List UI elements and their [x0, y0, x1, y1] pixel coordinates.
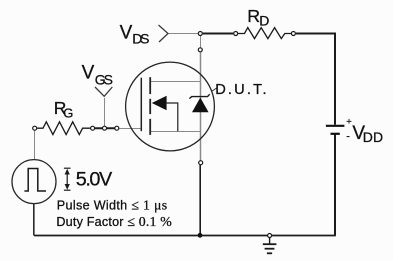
- svg-text:D.U.T.: D.U.T.: [215, 82, 266, 98]
- svg-text:5.0V: 5.0V: [76, 169, 113, 191]
- svg-text:V: V: [82, 62, 95, 83]
- svg-text:DD: DD: [363, 129, 383, 145]
- svg-text:DS: DS: [132, 30, 149, 46]
- svg-text:-: -: [346, 131, 350, 143]
- svg-text:G: G: [63, 106, 73, 121]
- svg-text:V: V: [120, 22, 133, 43]
- svg-text:D: D: [259, 12, 269, 28]
- svg-text:Duty Factor ≤ 0.1 %: Duty Factor ≤ 0.1 %: [56, 214, 172, 229]
- svg-text:GS: GS: [95, 71, 113, 87]
- svg-text:+: +: [346, 116, 352, 127]
- svg-text:Pulse Width ≤ 1 μs: Pulse Width ≤ 1 μs: [57, 198, 168, 213]
